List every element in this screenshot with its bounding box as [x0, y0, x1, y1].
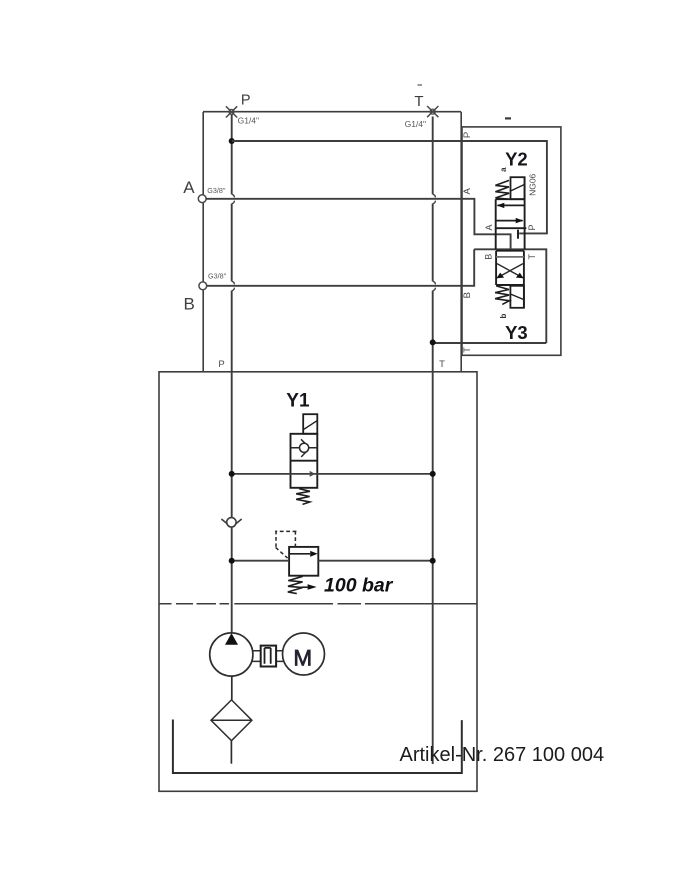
svg-text:A: A: [462, 187, 473, 194]
svg-text:T: T: [527, 253, 537, 259]
port A circle: [198, 195, 206, 203]
svg-text:Artikel-Nr. 267 100 004: Artikel-Nr. 267 100 004: [400, 744, 605, 766]
port T plug (crossed): [427, 106, 438, 117]
valve Y2 arrow right: [496, 220, 523, 222]
middle box outline: [159, 372, 477, 792]
pump circle: [210, 633, 253, 676]
valve Y2 arrow left: [498, 204, 525, 206]
wire P line vertical: [232, 114, 235, 633]
speck above T: [418, 84, 423, 86]
svg-text:Y1: Y1: [286, 390, 310, 411]
wire pump to filter: [231, 676, 233, 700]
svg-text:b: b: [499, 313, 508, 318]
filter element line: [211, 719, 252, 721]
svg-text:T: T: [462, 347, 473, 353]
svg-text:T: T: [414, 93, 423, 110]
svg-text:a: a: [499, 167, 508, 172]
relief valve internal arrow: [289, 553, 310, 555]
valve Y1 solenoid box: [303, 414, 317, 434]
node relief right dot: [430, 558, 436, 564]
node Y1 right dot: [430, 471, 436, 477]
svg-text:G3/8": G3/8": [208, 272, 227, 281]
relief valve spring: [288, 576, 303, 593]
port P plug (crossed): [226, 106, 237, 117]
check valve on P line: [221, 519, 241, 527]
wire suction: [230, 741, 232, 764]
speck above valve block: [505, 117, 511, 119]
pump shaft lines: [252, 651, 283, 662]
valve Y1 body: [291, 434, 318, 488]
svg-text:Y2: Y2: [505, 149, 528, 170]
svg-text:P: P: [527, 224, 537, 230]
valve Y3 crossed arrows: [497, 264, 523, 278]
wire T line vertical: [433, 117, 436, 765]
valve Y1 check seat: [291, 439, 318, 457]
svg-text:B: B: [484, 254, 494, 260]
svg-text:A: A: [183, 178, 195, 197]
svg-text:T: T: [439, 359, 445, 370]
plugged P branch bar: [517, 230, 519, 239]
svg-text:P: P: [218, 359, 224, 370]
svg-text:P: P: [462, 132, 473, 138]
svg-text:P: P: [241, 92, 251, 108]
svg-text:100 bar: 100 bar: [324, 575, 394, 597]
valve Y2 spring: [495, 180, 509, 199]
wire A: [206, 199, 511, 250]
tank symbol: [173, 720, 462, 774]
coupling inner bars: [265, 648, 271, 664]
wire Y1 cross line: [232, 473, 433, 475]
node T junction dot: [430, 339, 436, 345]
svg-text:Y3: Y3: [505, 322, 528, 343]
valve Y1 flow arrow: [310, 472, 314, 477]
svg-text:G1/4": G1/4": [238, 116, 259, 126]
tank divider dashed line: [159, 603, 477, 605]
valve Y1 check ball circle: [300, 443, 309, 452]
valve Y3 position square: [496, 251, 524, 308]
svg-text:G1/4": G1/4": [405, 119, 426, 129]
port B circle: [199, 282, 207, 290]
coupling box: [261, 646, 276, 667]
valve Y3 ports line: [496, 256, 524, 258]
node Y1 left dot: [229, 471, 235, 477]
pump outlet triangle: [225, 633, 238, 645]
wire P to valve block: [232, 141, 547, 233]
valve Y2 position square: [496, 177, 527, 249]
relief valve square: [289, 547, 318, 576]
node P junction dot: [229, 138, 235, 144]
valve Y2 solenoid box: [511, 177, 525, 199]
valve Y1 spring: [296, 489, 310, 505]
svg-text:B: B: [462, 292, 473, 298]
wire AB rail to T: [433, 249, 547, 343]
svg-text:A: A: [484, 224, 494, 230]
relief valve adjust arrow: [302, 586, 308, 588]
valve Y3 spring: [495, 286, 509, 305]
valve Y3 solenoid box: [510, 286, 524, 308]
svg-text:G3/8": G3/8": [207, 186, 226, 195]
motor circle: [283, 633, 325, 675]
wire B: [207, 249, 475, 285]
filter diamond: [211, 700, 252, 741]
svg-text:B: B: [184, 294, 195, 313]
top ports block outline: [203, 112, 461, 372]
svg-text:NG06: NG06: [527, 173, 537, 195]
relief valve pilot dashed line: [275, 531, 296, 559]
node relief left dot: [229, 558, 235, 564]
wire relief line: [232, 560, 433, 562]
valve block outer box: [462, 127, 561, 355]
svg-text:M: M: [293, 646, 312, 671]
